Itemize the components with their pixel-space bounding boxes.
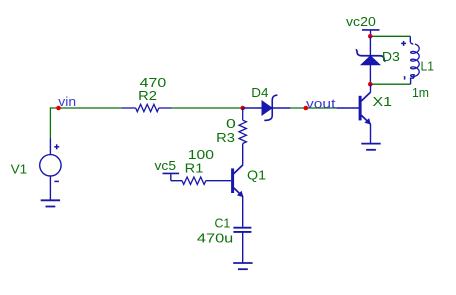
wire D3 bottom node to L1 bottom	[370, 83, 410, 85]
svg-text:D3: D3	[382, 49, 400, 64]
svg-text:470u: 470u	[197, 231, 233, 246]
wire Q1 emitter to C1	[242, 197, 244, 227]
svg-text:R3: R3	[216, 130, 235, 145]
svg-text:100: 100	[188, 147, 214, 162]
svg-text:X1: X1	[373, 94, 393, 109]
ground below X1	[361, 143, 380, 145]
inductor L1	[410, 36, 413, 44]
svg-text:vout: vout	[306, 96, 336, 111]
svg-text:R2: R2	[138, 88, 157, 103]
svg-text:D4: D4	[251, 85, 268, 100]
zener diode D3	[369, 36, 371, 56]
svg-text:vin: vin	[58, 94, 76, 109]
svg-text:vc5: vc5	[155, 158, 177, 173]
ground below C1	[233, 262, 252, 264]
node vin dot	[56, 106, 61, 111]
ground below V1	[41, 199, 60, 201]
wire vc20 node to L1 top	[370, 35, 410, 37]
node vout dot	[304, 106, 309, 111]
power symbol vc20	[362, 29, 380, 31]
capacitor C1	[233, 227, 251, 229]
resistor R3	[242, 108, 244, 120]
wire R2 to node A	[172, 107, 244, 109]
transistor X1	[337, 107, 359, 109]
svg-text:V1: V1	[11, 162, 28, 177]
svg-text:Q1: Q1	[247, 168, 266, 183]
voltage source V1	[49, 139, 51, 155]
transistor Q1	[231, 168, 234, 193]
wire R3 to Q1 collector	[242, 144, 244, 165]
wire vin horizontal	[50, 107, 122, 109]
wire vin vertical	[49, 107, 51, 138]
svg-text:C1: C1	[215, 215, 231, 230]
power symbol vc5	[163, 172, 180, 174]
svg-text:1m: 1m	[412, 85, 429, 100]
svg-text:vc20: vc20	[346, 14, 376, 29]
node D3 bottom dot	[368, 82, 373, 87]
svg-text:L1: L1	[421, 59, 434, 74]
svg-text:R1: R1	[185, 161, 204, 176]
resistor R1	[171, 180, 182, 182]
node A junction dot (R3/D4)	[240, 106, 245, 111]
svg-text:0: 0	[226, 116, 236, 131]
diode D4	[243, 107, 262, 109]
resistor R2	[122, 107, 136, 109]
wire D4 to X1 base	[290, 107, 337, 109]
node vc20 dot	[368, 34, 373, 39]
